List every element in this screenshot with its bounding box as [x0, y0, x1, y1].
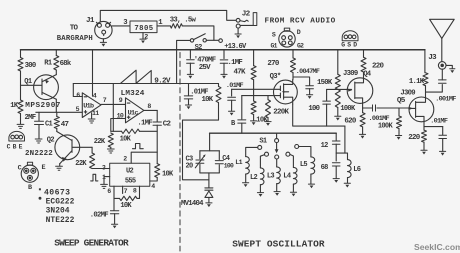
svg-text:2N2222: 2N2222: [25, 150, 53, 158]
svg-text:2: 2: [144, 34, 148, 42]
jfet Q5 J309: [409, 97, 434, 122]
resistor 100K gate: [398, 108, 400, 116]
ground below 1K: [17, 124, 24, 128]
capacitor node B: [241, 96, 243, 119]
capacitor C2 .1MF: [156, 110, 158, 121]
svg-text:L6: L6: [353, 166, 361, 174]
capacitor C4 100: [218, 151, 220, 160]
inductor L2: [260, 155, 264, 168]
mosfet Q3 40673: [274, 80, 298, 104]
svg-text:Q5: Q5: [397, 97, 406, 105]
svg-text:620: 620: [344, 117, 356, 125]
inductor L4: [290, 154, 294, 167]
svg-text:.01MF: .01MF: [226, 82, 244, 90]
capacitor .01MF G2: [231, 89, 233, 96]
capacitor .01MF bypass: [442, 127, 444, 135]
resistor 22K (Q2 collector): [91, 147, 93, 153]
ground U1b pin 11: [91, 113, 93, 119]
pinout dome C B E: [9, 131, 25, 141]
wire 555 pin 6: [113, 186, 115, 198]
wire bank rail: [210, 132, 337, 134]
op-amp U1c: [126, 98, 144, 123]
wire tank to varactor: [208, 173, 210, 188]
svg-text:B: B: [28, 184, 32, 192]
svg-text:SeekIC.com: SeekIC.com: [414, 242, 460, 252]
wire J1 to 7805 pin 3: [112, 25, 130, 27]
svg-text:Q3*: Q3*: [270, 73, 281, 81]
svg-text:20: 20: [186, 163, 194, 171]
resistor 47 (C1): [54, 117, 59, 129]
svg-text:.02MF: .02MF: [90, 211, 108, 219]
resistor 150K: [337, 50, 339, 75]
wire Q4 gate: [327, 88, 352, 90]
svg-text:C B E: C B E: [7, 144, 23, 151]
svg-text:10K: 10K: [120, 202, 132, 210]
svg-text:3N204: 3N204: [46, 206, 70, 215]
jfet Q4 J309: [347, 78, 373, 104]
svg-text:220K: 220K: [273, 109, 289, 117]
wire +13.6V bus: [21, 49, 425, 51]
switch S1: [276, 133, 278, 138]
transistor Q1 MPS2907: [34, 75, 59, 100]
svg-text:LM324: LM324: [121, 90, 145, 98]
resistor 33 ohm 0.5W: [170, 24, 182, 28]
svg-text:.001MF: .001MF: [435, 96, 456, 104]
ground below 22K: [107, 149, 114, 153]
svg-text:11: 11: [92, 110, 99, 117]
resistor 10K feedback: [111, 130, 122, 132]
svg-text:100: 100: [308, 105, 319, 113]
ground 555 pin 1: [101, 184, 108, 188]
svg-text:40673: 40673: [44, 188, 70, 197]
resistor 300: [20, 50, 22, 58]
switch S2: [190, 39, 193, 42]
svg-text:22K: 22K: [75, 160, 87, 168]
svg-text:3: 3: [123, 19, 127, 27]
svg-text:68: 68: [321, 164, 329, 172]
wire rail to L6 node: [344, 126, 346, 153]
resistor 10K (pins 6-8): [114, 197, 120, 199]
capacitor .01MF sweep: [188, 84, 190, 96]
wire 7805 pin1 to resistor: [157, 25, 170, 27]
ground below J1: [102, 39, 104, 42]
wire 555 pin 7: [122, 186, 124, 193]
wire Q1 collector down: [55, 99, 57, 112]
pulse waveform symbol: [133, 144, 144, 149]
resistor 10K (pin 2-4): [155, 164, 160, 178]
svg-text:R1: R1: [44, 59, 52, 67]
svg-text:100: 100: [224, 163, 234, 170]
wire tank to rail: [209, 133, 211, 151]
svg-text:J2: J2: [242, 11, 251, 19]
svg-text:2MF: 2MF: [25, 114, 36, 122]
wire 555 pin 2: [131, 152, 157, 163]
antenna: [430, 19, 455, 38]
wire tank top: [200, 150, 219, 152]
wire U1b pin 4 to bus: [92, 50, 94, 96]
resistor R1 68k: [55, 50, 57, 56]
capacitor C3 20 variable: [199, 151, 201, 159]
capacitor .0047MF: [293, 77, 310, 85]
parts list: [39, 188, 41, 190]
inductor L6: [336, 153, 347, 160]
wire sweep to varactor: [183, 103, 219, 180]
pinout TO-5 case: [21, 165, 38, 182]
svg-text:J1: J1: [86, 17, 95, 25]
resistor 220 drain: [363, 50, 365, 58]
svg-text:G2: G2: [297, 42, 304, 49]
svg-text:SWEPT OSCILLATOR: SWEPT OSCILLATOR: [232, 238, 325, 249]
resistor 22K to ground: [108, 133, 113, 147]
wire U1c pin 10: [111, 119, 126, 132]
node sweep rail 9.2V: [73, 83, 218, 85]
ground below J2: [237, 28, 239, 34]
wire Q1 base: [21, 84, 42, 86]
svg-text:L5: L5: [300, 161, 308, 169]
wire drain to J3: [426, 85, 443, 93]
pinout diagram G S D: [342, 31, 358, 41]
svg-text:300: 300: [25, 62, 36, 70]
capacitor 2MF: [38, 112, 40, 121]
wire U1b pin 6 feedback: [73, 84, 82, 97]
ground below Q2 emitter: [59, 164, 61, 166]
svg-text:MV1404: MV1404: [181, 200, 204, 208]
svg-text:C2: C2: [163, 121, 172, 129]
svg-text:U1c: U1c: [128, 109, 139, 117]
regulator U3 7805: [130, 21, 157, 33]
svg-text:.1MF: .1MF: [228, 59, 243, 67]
svg-text:L3: L3: [267, 173, 275, 181]
transistor Q2 2N2222: [55, 135, 80, 160]
svg-text:J309: J309: [343, 70, 358, 78]
svg-text:47K: 47K: [234, 69, 246, 77]
svg-text:U2: U2: [126, 168, 134, 176]
jack J2: [236, 18, 240, 22]
svg-text:S2: S2: [195, 44, 203, 52]
wire Q5 source node: [424, 122, 443, 127]
svg-text:7805: 7805: [134, 25, 153, 33]
svg-text:.01MF: .01MF: [430, 117, 448, 125]
inductor L1: [246, 147, 258, 156]
wire 555 pin 8: [139, 186, 141, 198]
svg-text:100K: 100K: [378, 123, 394, 131]
svg-text:C: C: [18, 164, 22, 172]
ground below 2MF: [35, 139, 42, 143]
inductor L3: [276, 159, 278, 167]
svg-text:G1: G1: [271, 42, 278, 49]
wire 47 to Q2 base: [57, 132, 72, 141]
svg-text:TO: TO: [70, 25, 79, 33]
svg-text:9.2V: 9.2V: [154, 78, 171, 86]
pinout diagram S/D/G1/G2: [279, 31, 295, 47]
svg-text:L1: L1: [235, 159, 242, 166]
svg-text:G S D: G S D: [341, 42, 357, 49]
capacitor 68: [332, 163, 340, 166]
svg-text:ECG222: ECG222: [46, 198, 75, 207]
svg-text:FROM RCV AUDIO: FROM RCV AUDIO: [265, 17, 336, 25]
svg-text:25V: 25V: [199, 64, 211, 72]
varactor MV1404: [205, 188, 213, 190]
svg-text:BARGRAPH: BARGRAPH: [57, 35, 93, 43]
svg-text:SWEEP GENERATOR: SWEEP GENERATOR: [54, 238, 129, 249]
wire G2 line: [232, 88, 281, 90]
svg-text:S1: S1: [259, 138, 267, 146]
pulse waveform symbol 2: [91, 174, 98, 181]
resistor 1K: [18, 100, 23, 114]
svg-text:Q2: Q2: [47, 137, 55, 145]
svg-text:10K: 10K: [202, 96, 214, 104]
svg-text:100K: 100K: [340, 105, 356, 113]
timer U2 555: [110, 163, 150, 186]
svg-text:220: 220: [372, 62, 384, 70]
wire U1c output: [144, 109, 157, 111]
capacitor .001MF coupling: [363, 107, 372, 109]
ground below MV1404: [206, 202, 212, 204]
svg-text:MPS2907: MPS2907: [25, 102, 61, 110]
wire G1 line: [242, 95, 281, 97]
svg-text:L2: L2: [250, 174, 258, 182]
svg-text:Q1: Q1: [24, 78, 32, 86]
wire U1b output: [101, 103, 126, 105]
svg-text:.1MF: .1MF: [137, 120, 152, 128]
dashed section divider: [179, 53, 181, 252]
capacitor .001MF output: [439, 80, 447, 83]
wire output riser: [112, 84, 114, 132]
resistor 220 source: [423, 127, 425, 131]
svg-text:10K: 10K: [162, 171, 174, 179]
capacitor .02MF: [113, 198, 115, 210]
svg-text:.0047MF: .0047MF: [296, 68, 320, 76]
wire Q3 source rail: [293, 104, 345, 126]
svg-text:J3: J3: [428, 54, 437, 62]
resistor 620: [362, 103, 364, 112]
wire 555 pin 1: [104, 177, 110, 184]
capacitor 470MF 25V: [189, 50, 191, 59]
svg-text:150K: 150K: [317, 79, 333, 87]
op-amp U1b: [82, 93, 101, 118]
resistor 10K sweep: [218, 84, 220, 87]
resistor 10K divider: [251, 101, 256, 115]
wire to U1b pin 5: [36, 111, 83, 113]
ground below .02MF: [112, 223, 118, 225]
resistor 47K: [253, 50, 255, 66]
capacitor 100: [326, 89, 328, 100]
wire S2 to bus: [177, 40, 191, 83]
inductor L5: [299, 147, 311, 157]
resistor 1.1K: [424, 50, 426, 73]
svg-text:47: 47: [61, 121, 69, 129]
connector J3: [438, 62, 446, 70]
svg-text:22K: 22K: [94, 138, 106, 146]
wire resistor to S2: [182, 26, 214, 40]
svg-text:68k: 68k: [60, 60, 72, 68]
resistor 270: [292, 50, 294, 58]
ground 7805 pin 2: [142, 33, 144, 39]
ground right of J3: [446, 65, 452, 68]
svg-text:270: 270: [267, 60, 279, 68]
resistor 220K: [267, 96, 269, 100]
svg-text:220: 220: [408, 134, 420, 142]
svg-text:C1: C1: [45, 121, 53, 129]
capacitor .1MF supply: [223, 50, 225, 59]
svg-text:33, .5w: 33, .5w: [170, 16, 197, 24]
sawtooth waveform symbol: [121, 70, 152, 83]
svg-text:E: E: [42, 164, 46, 172]
svg-text:555: 555: [125, 178, 136, 186]
svg-text:10K: 10K: [120, 136, 132, 144]
svg-text:12: 12: [321, 142, 329, 150]
capacitor 12: [335, 133, 337, 140]
connector J1 (XLR to bargraph): [95, 21, 112, 38]
wire tank bottom: [200, 172, 219, 174]
resistor 100K divider: [335, 89, 340, 107]
wire J1 top to J2: [100, 10, 236, 22]
svg-text:NTE222: NTE222: [46, 216, 75, 225]
svg-text:1.1K: 1.1K: [409, 78, 425, 86]
